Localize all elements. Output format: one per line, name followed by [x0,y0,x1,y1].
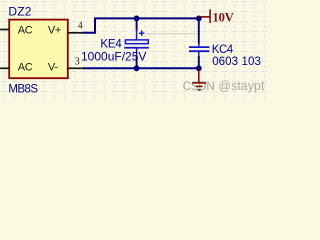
wire KE4 upper [136,18,138,30]
netflag 10V tick [209,9,211,23]
junction at KE4 top [134,16,140,22]
ground symbol bar 3 [198,89,201,91]
svg-text:AC: AC [18,61,33,73]
wire bottom net horizontal [83,67,199,69]
pin 1 stub (left top) [0,29,10,31]
svg-text:10V: 10V [212,10,234,24]
wire from pin 4 up to top net [83,18,95,32]
svg-text:V-: V- [48,61,58,73]
junction at KE4 bottom [134,65,140,71]
bridge rectifier DZ2 body [9,20,68,79]
capacitor KC4 upper pin [198,43,200,46]
svg-text:MB8S: MB8S [8,84,38,96]
svg-text:3: 3 [75,57,80,68]
wire top net horizontal [94,17,199,19]
capacitor KE4 plus sign [139,30,144,36]
svg-text:0603 103: 0603 103 [212,56,261,68]
junction at KC4 bottom [196,65,202,71]
capacitor KC4 bottom plate [189,50,209,52]
wire KC4 lower [198,56,200,68]
capacitor KE4 lower pin [136,48,138,57]
svg-text:KC4: KC4 [212,44,234,56]
ground symbol bar 1 [192,82,206,84]
pin 4 stub [68,32,84,34]
stray gray line artifact [146,33,199,35]
capacitor KC4 lower pin [198,52,200,57]
junction at KC4 top [196,16,202,22]
svg-text:DZ2: DZ2 [8,5,31,19]
netflag 10V lead [199,16,211,18]
svg-text:4: 4 [78,21,83,32]
capacitor KE4 positive plate box [125,40,148,44]
pin 2 stub (left bottom) [0,67,10,69]
svg-text:AC: AC [18,24,33,36]
svg-text:V+: V+ [48,24,61,36]
svg-text:@staypt: @staypt [218,79,265,93]
capacitor KE4 upper pin [136,30,138,39]
pin 3 stub [68,67,84,69]
ground symbol bar 2 [196,85,203,87]
wire KE4 lower [136,56,138,68]
svg-text:1000uF/25V: 1000uF/25V [81,50,146,64]
capacitor KC4 top plate [189,46,209,48]
capacitor KE4 negative plate [124,47,149,49]
ground symbol stem [198,68,200,82]
wire KC4 upper [198,18,200,43]
